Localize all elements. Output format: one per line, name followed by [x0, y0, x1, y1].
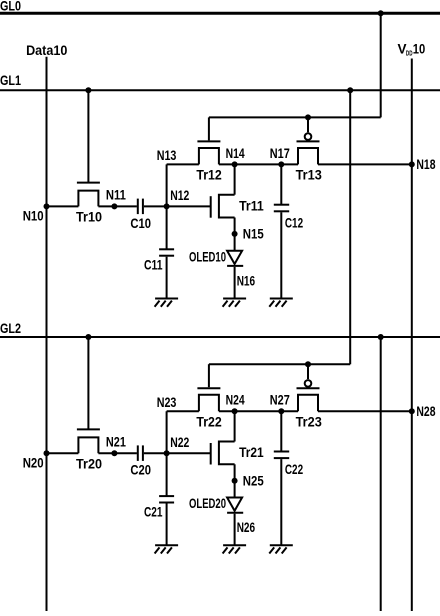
node N22 junction dot: [164, 450, 170, 456]
wire from GL2 down to next row: [380, 337, 382, 611]
wire upper rail middle segment N24 to N27: [219, 410, 298, 412]
wire N23 vertical from upper wire through N22 down to C21: [166, 411, 168, 496]
transistor Tr12 channel: [199, 148, 219, 164]
svg-text:N20: N20: [23, 455, 44, 471]
wire from GL0 down to row1 gate line: [380, 13, 382, 117]
svg-text:OLED10: OLED10: [189, 249, 226, 265]
transistor Tr10 channel: [78, 191, 98, 207]
transistor Tr23 gate bubble: [305, 380, 312, 387]
wire N24 down to Tr21 drain: [234, 411, 236, 441]
transistor Tr23 gate plate: [297, 387, 320, 389]
svg-text:C12: C12: [285, 215, 303, 231]
wire gate dot to Tr23 bubble: [307, 364, 309, 379]
svg-text:N23: N23: [157, 395, 177, 411]
wire C11 to ground: [166, 257, 168, 299]
node N28 junction dot: [409, 408, 415, 414]
svg-text:N22: N22: [170, 435, 189, 451]
node N15 junction dot: [232, 231, 238, 237]
svg-text:N17: N17: [270, 146, 290, 162]
wire C12 to ground: [280, 212, 282, 298]
wire N13 vertical from upper wire through N12 down to C11: [166, 164, 168, 249]
node N12 junction dot: [164, 203, 170, 209]
svg-text:Tr21: Tr21: [239, 445, 264, 461]
wire upper rail left segment N13 to Tr12: [167, 163, 199, 165]
svg-text:N11: N11: [106, 188, 126, 204]
node N10 junction dot: [44, 203, 50, 209]
wire gate dot to Tr13 bubble: [307, 117, 309, 132]
transistor Tr22 gate plate: [197, 387, 220, 389]
wire row1 gate line: [209, 116, 381, 118]
svg-text:C20: C20: [130, 463, 151, 479]
capacitor C10 plates: [137, 199, 139, 215]
wire upper rail left segment N23 to Tr22: [167, 410, 199, 412]
node VDD10 label: [398, 42, 426, 58]
svg-text:Tr12: Tr12: [196, 168, 221, 184]
svg-text:Tr20: Tr20: [76, 456, 102, 472]
svg-text:N12: N12: [170, 188, 189, 204]
wire N27 down to C22: [280, 411, 282, 451]
wire C10 to N12 to Tr11 gate: [144, 205, 211, 207]
ground below C11: [155, 299, 179, 307]
junction dot on GL2 at x=88: [85, 334, 91, 340]
node N21 junction dot: [111, 450, 117, 456]
diode OLED10: [227, 251, 243, 266]
svg-text:N26: N26: [237, 520, 255, 536]
wire gate of Tr10 from GL1: [87, 90, 89, 182]
wire Tr21 source to N25: [234, 464, 236, 497]
svg-text:N13: N13: [157, 148, 177, 164]
svg-text:Tr10: Tr10: [76, 210, 102, 226]
svg-text:C10: C10: [130, 216, 151, 232]
svg-text:10: 10: [413, 42, 426, 57]
wire upper rail right segment Tr13 to N18: [318, 163, 412, 165]
svg-text:GL1: GL1: [0, 73, 21, 89]
transistor Tr11 gate plate: [210, 196, 212, 218]
svg-text:N10: N10: [23, 209, 44, 225]
capacitor C12 plates: [274, 204, 289, 206]
node N18 junction dot: [409, 161, 415, 167]
svg-text:GL0: GL0: [0, 0, 21, 15]
wire Data10 vertical line: [46, 57, 48, 611]
transistor Tr13 gate plate: [297, 140, 320, 142]
ground below C21: [155, 545, 179, 553]
junction dot on GL1 at x=350: [347, 87, 353, 93]
wire VDD10 vertical line: [411, 59, 413, 612]
wire upper rail right segment Tr23 to N28: [318, 410, 412, 412]
capacitor C20 plates: [137, 445, 139, 461]
transistor Tr21 gate plate: [210, 443, 212, 465]
node N24 junction dot: [232, 408, 238, 414]
svg-text:N14: N14: [226, 146, 245, 162]
wire Tr10 drain to N11 and C10: [98, 205, 136, 207]
node N20 junction dot: [44, 450, 50, 456]
wire N10 to Tr10 source: [47, 205, 79, 207]
transistor Tr22 channel: [199, 395, 219, 411]
node N17 junction dot: [278, 161, 284, 167]
transistor Tr21 channel: [219, 442, 235, 465]
ground below C22: [269, 545, 293, 553]
transistor Tr12 gate wire from gate line: [208, 117, 210, 140]
wire N20 to Tr20 source: [47, 452, 79, 454]
capacitor C11 plates: [159, 248, 174, 250]
capacitor C21 plates: [159, 495, 174, 497]
junction dot on GL2 at x=381: [378, 334, 384, 340]
transistor Tr12 gate plate: [197, 140, 220, 142]
svg-text:N25: N25: [243, 473, 264, 489]
wire row2 gate line: [209, 363, 350, 365]
transistor Tr13 channel: [298, 148, 318, 164]
wire C22 to ground: [280, 459, 282, 545]
svg-text:N15: N15: [243, 227, 264, 243]
junction dot gate line row1 at x=308: [305, 114, 311, 120]
transistor Tr10 gate plate: [77, 182, 100, 184]
transistor Tr13 gate bubble: [305, 133, 312, 140]
wire Tr20 drain to N21 and C20: [98, 452, 136, 454]
svg-text:C22: C22: [285, 462, 303, 478]
transistor Tr11 channel: [219, 195, 235, 218]
svg-text:Tr13: Tr13: [296, 168, 322, 184]
wire C21 to ground: [166, 504, 168, 546]
wire Tr11 source to N15: [234, 218, 236, 251]
wire N14 down to Tr11 drain: [234, 164, 236, 194]
svg-text:C21: C21: [144, 504, 163, 520]
transistor Tr22 gate wire from gate line: [208, 364, 210, 387]
wire gate of Tr20 from GL2: [87, 337, 89, 429]
svg-text:N28: N28: [416, 404, 435, 420]
wire OLED20 cathode to ground: [234, 514, 236, 546]
transistor Tr20 channel: [78, 437, 98, 453]
ground below OLED20: [223, 545, 247, 553]
wire C20 to N22 to Tr21 gate: [144, 452, 211, 454]
svg-text:N21: N21: [106, 435, 126, 451]
wire GL0 horizontal line: [0, 12, 440, 15]
svg-text:Tr23: Tr23: [296, 414, 322, 430]
ground below OLED10: [223, 299, 247, 307]
ground below C12: [269, 299, 293, 307]
junction dot gate line row2 at x=308: [305, 361, 311, 367]
junction dot on GL0 at x=381: [378, 10, 384, 16]
wire from GL1 down to row2 gate line: [349, 90, 351, 364]
wire OLED10 cathode to ground: [234, 267, 236, 299]
capacitor C22 plates: [274, 451, 289, 453]
diode OLED20: [227, 498, 243, 513]
svg-text:Tr11: Tr11: [239, 198, 264, 214]
junction dot on GL1 at x=88: [85, 87, 91, 93]
svg-text:N16: N16: [237, 273, 255, 289]
svg-text:GL2: GL2: [0, 321, 21, 337]
wire GL1 horizontal line: [0, 89, 440, 91]
node N14 junction dot: [232, 161, 238, 167]
wire upper rail middle segment N14 to N17: [219, 163, 298, 165]
svg-text:N24: N24: [226, 393, 245, 409]
svg-text:OLED20: OLED20: [189, 496, 226, 512]
node N25 junction dot: [232, 478, 238, 484]
wire GL2 horizontal line: [0, 336, 440, 338]
node N11 junction dot: [111, 203, 117, 209]
svg-text:N27: N27: [270, 393, 290, 409]
wire N17 down to C12: [280, 164, 282, 204]
svg-text:Data10: Data10: [26, 43, 67, 59]
transistor Tr20 gate plate: [77, 428, 100, 430]
svg-text:Tr22: Tr22: [196, 414, 221, 430]
svg-text:DD: DD: [406, 51, 413, 58]
transistor Tr23 channel: [298, 395, 318, 411]
node N27 junction dot: [278, 408, 284, 414]
svg-text:C11: C11: [144, 258, 163, 274]
svg-text:N18: N18: [416, 157, 435, 173]
